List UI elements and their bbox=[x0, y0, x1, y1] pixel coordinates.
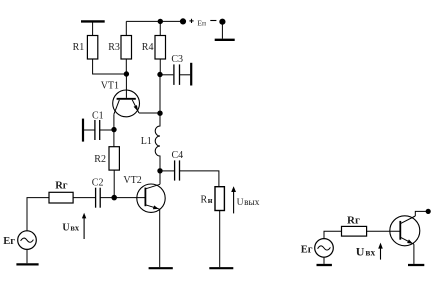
svg-text:вх: вх bbox=[365, 249, 375, 259]
svg-text:R4: R4 bbox=[142, 42, 154, 53]
wire Rg right to base bbox=[367, 230, 401, 232]
wire Rn bottom lead bbox=[219, 211, 221, 268]
node VT1 emitter column bbox=[158, 111, 162, 115]
wire R3 top lead bbox=[125, 21, 127, 35]
terminal bar C3 output bbox=[190, 63, 192, 86]
capacitor C2 bbox=[92, 178, 104, 208]
node L1 bottom junction bbox=[158, 169, 162, 173]
wire C4 to Rn bbox=[180, 171, 219, 187]
svg-text:Eп: Eп bbox=[197, 19, 206, 28]
svg-text:R3: R3 bbox=[108, 42, 120, 53]
ground Rn bbox=[209, 267, 233, 269]
resistor Rn bbox=[201, 187, 225, 211]
arrow Uvx right bbox=[378, 243, 383, 260]
resistor R4 bbox=[155, 36, 166, 60]
svg-text:R1: R1 bbox=[73, 42, 85, 53]
svg-text:C2: C2 bbox=[92, 178, 104, 189]
wire R2 bottom lead bbox=[113, 170, 115, 198]
resistor R3 bbox=[121, 36, 132, 60]
wire C3 to terminal bbox=[180, 74, 191, 76]
node VT1 base bbox=[124, 72, 128, 76]
svg-text:U: U bbox=[356, 245, 365, 259]
svg-text:Eг: Eг bbox=[3, 236, 15, 247]
inductor L1 bbox=[141, 113, 160, 170]
transistor VT2 bbox=[123, 175, 165, 213]
svg-text:вх: вх bbox=[70, 223, 80, 232]
transistor right bbox=[390, 216, 420, 246]
wire emitter right down bbox=[413, 244, 415, 264]
ground VT2 bbox=[149, 267, 173, 269]
capacitor C1 bbox=[83, 110, 114, 141]
source Eg left bbox=[3, 231, 36, 250]
wire R4 top lead bbox=[159, 21, 161, 35]
svg-text:вых: вых bbox=[244, 198, 260, 208]
wire R1 bottom to base node bbox=[93, 59, 127, 74]
wire R3 bottom lead bbox=[125, 59, 127, 74]
resistor R2 bbox=[109, 147, 119, 170]
svg-text:R2: R2 bbox=[94, 154, 106, 165]
source Eg right bbox=[301, 239, 334, 258]
resistor R1 bbox=[87, 36, 97, 60]
svg-text:Rг: Rг bbox=[347, 214, 360, 226]
svg-text:C3: C3 bbox=[171, 54, 183, 65]
wire Rg to C2 bbox=[73, 197, 95, 199]
wire top supply rail bbox=[126, 20, 183, 22]
wire Eg right down bbox=[323, 257, 325, 264]
ground Eg left bbox=[16, 249, 38, 264]
svg-text:U: U bbox=[62, 222, 69, 233]
wire R1 top lead bbox=[92, 21, 94, 35]
svg-text:C1: C1 bbox=[92, 110, 104, 121]
wire minus terminal lead bbox=[221, 22, 223, 39]
junction top rail R4 bbox=[158, 19, 162, 23]
wire C2 to VT2 base bbox=[100, 197, 145, 199]
label Uvx left bbox=[62, 222, 80, 233]
svg-text:VT1: VT1 bbox=[101, 80, 119, 91]
resistor Rg left bbox=[49, 180, 73, 203]
wire VT2 emitter down bbox=[159, 209, 161, 267]
wire VT1 emitter to column bbox=[139, 112, 160, 114]
label Uvx right bbox=[356, 245, 376, 259]
svg-text:C4: C4 bbox=[172, 150, 184, 161]
svg-text:Eг: Eг bbox=[301, 245, 313, 256]
terminal bar minus Ep bbox=[215, 39, 235, 41]
svg-text:Rг: Rг bbox=[55, 180, 68, 191]
resistor Rg right bbox=[342, 214, 367, 236]
svg-text:U: U bbox=[237, 198, 244, 208]
node C1 junction bbox=[112, 127, 116, 131]
wire VT2 collector up bbox=[159, 171, 161, 185]
svg-text:L1: L1 bbox=[141, 136, 152, 147]
capacitor C4 bbox=[172, 150, 184, 180]
ground transistor right bbox=[408, 264, 424, 266]
svg-text:н: н bbox=[208, 196, 213, 205]
wire R4 bottom lead bbox=[159, 59, 161, 75]
label + Ep - bbox=[197, 19, 206, 28]
arrow Uvx left bbox=[82, 213, 86, 239]
wire Eg up to Rg bbox=[27, 198, 49, 231]
capacitor C3 bbox=[173, 64, 175, 85]
label Uvyh bbox=[237, 198, 260, 208]
main column wire bbox=[159, 75, 161, 114]
wire Eg right up to Rg bbox=[324, 231, 342, 238]
wire collector right bbox=[415, 211, 428, 216]
wire to C3 bbox=[160, 74, 173, 76]
ground Eg right bbox=[317, 264, 332, 266]
terminal bar top-left bbox=[81, 20, 105, 22]
node R4 C3 junction bbox=[158, 72, 162, 76]
wire VT1 collector down bbox=[113, 114, 115, 147]
node input junction bbox=[112, 195, 117, 200]
terminal plus Ep bbox=[180, 19, 185, 24]
transistor VT1 bbox=[101, 80, 140, 117]
arrow Uvyh bbox=[231, 186, 236, 213]
terminal minus Ep bbox=[220, 19, 225, 24]
svg-text:R: R bbox=[201, 194, 208, 205]
terminal collector right bbox=[426, 209, 430, 213]
wire to C4 bbox=[160, 170, 174, 172]
svg-text:VT2: VT2 bbox=[123, 175, 141, 186]
wire VT1 base lead bbox=[125, 74, 127, 98]
